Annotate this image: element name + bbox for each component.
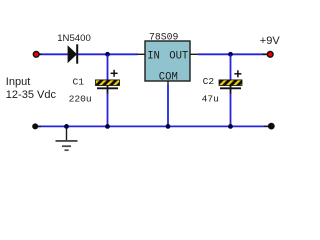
label 78S09 bbox=[149, 32, 179, 43]
node +9V terminal (red) bbox=[267, 51, 273, 57]
wire C2 top bbox=[230, 55, 232, 80]
svg-text:78S09: 78S09 bbox=[149, 32, 179, 43]
label 220u bbox=[69, 93, 92, 104]
wire C1 bottom bbox=[107, 93, 109, 127]
node junction top of C2 bbox=[228, 52, 233, 57]
capacitor C1 bbox=[96, 70, 120, 94]
capacitor C2 bbox=[219, 70, 242, 94]
node input terminal (red) bbox=[33, 51, 39, 57]
svg-text:+9V: +9V bbox=[260, 35, 281, 47]
label 1N5400 bbox=[57, 33, 91, 44]
diode D1 1N5400 bbox=[68, 44, 78, 63]
node junction C1 bottom bbox=[105, 124, 110, 129]
svg-text:Input: Input bbox=[6, 76, 30, 88]
label Input bbox=[6, 76, 30, 88]
wire top rail right segment bbox=[198, 53, 267, 55]
regulator U1 78S09 bbox=[145, 41, 190, 81]
svg-text:47u: 47u bbox=[202, 94, 219, 105]
wire COM to ground rail bbox=[167, 85, 169, 127]
wire C1 top bbox=[107, 55, 109, 80]
svg-text:220u: 220u bbox=[69, 93, 92, 104]
node junction ground bbox=[64, 124, 69, 129]
node junction COM bottom bbox=[166, 124, 171, 129]
pin IN bbox=[137, 50, 160, 62]
svg-text:1N5400: 1N5400 bbox=[57, 33, 91, 44]
wire bottom rail bbox=[37, 125, 268, 127]
label 12-35 Vdc bbox=[6, 89, 57, 101]
node junction top of C1 bbox=[105, 52, 110, 57]
node bottom-right terminal (black) bbox=[268, 123, 275, 130]
node junction C2 bottom bbox=[228, 124, 233, 129]
pin OUT bbox=[169, 50, 198, 62]
ground bbox=[56, 127, 78, 150]
svg-text:IN: IN bbox=[147, 50, 160, 62]
label +9V bbox=[260, 35, 281, 47]
label C2 bbox=[203, 76, 215, 87]
svg-text:12-35 Vdc: 12-35 Vdc bbox=[6, 89, 57, 101]
svg-text:OUT: OUT bbox=[169, 50, 188, 62]
label C1 bbox=[73, 76, 85, 87]
svg-text:COM: COM bbox=[159, 71, 178, 83]
wire C2 bottom bbox=[230, 93, 232, 127]
label 47u bbox=[202, 94, 219, 105]
svg-text:C2: C2 bbox=[203, 76, 215, 87]
svg-text:C1: C1 bbox=[73, 76, 85, 87]
node bottom-left terminal (black) bbox=[32, 123, 38, 129]
wire top rail left segment bbox=[38, 53, 138, 55]
pin COM bbox=[159, 71, 178, 86]
